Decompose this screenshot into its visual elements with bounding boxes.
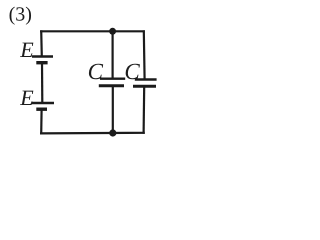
wire left middle — [41, 63, 43, 103]
wire left lower — [40, 109, 43, 134]
label E2 — [19, 85, 34, 110]
label C1 — [88, 59, 104, 84]
svg-text:E: E — [19, 37, 34, 62]
svg-text:C: C — [88, 59, 104, 84]
capacitor C2 — [133, 80, 157, 87]
wire right upper — [143, 30, 146, 79]
wire right lower — [143, 86, 146, 134]
svg-text:(3): (3) — [9, 3, 32, 25]
capacitor C1 — [99, 79, 125, 86]
wire middle upper — [111, 31, 113, 78]
node junction bottom — [109, 129, 116, 136]
label E1 — [19, 37, 34, 62]
node junction top — [109, 28, 116, 35]
label C2 — [124, 59, 140, 84]
battery E1 — [32, 57, 53, 63]
wire left upper — [40, 30, 43, 56]
label (3) — [9, 3, 32, 25]
wire top — [40, 30, 145, 32]
svg-text:C: C — [124, 59, 140, 84]
wire middle lower — [112, 86, 114, 133]
battery E2 — [32, 103, 55, 109]
svg-text:E: E — [19, 85, 34, 110]
wire bottom — [40, 132, 145, 135]
